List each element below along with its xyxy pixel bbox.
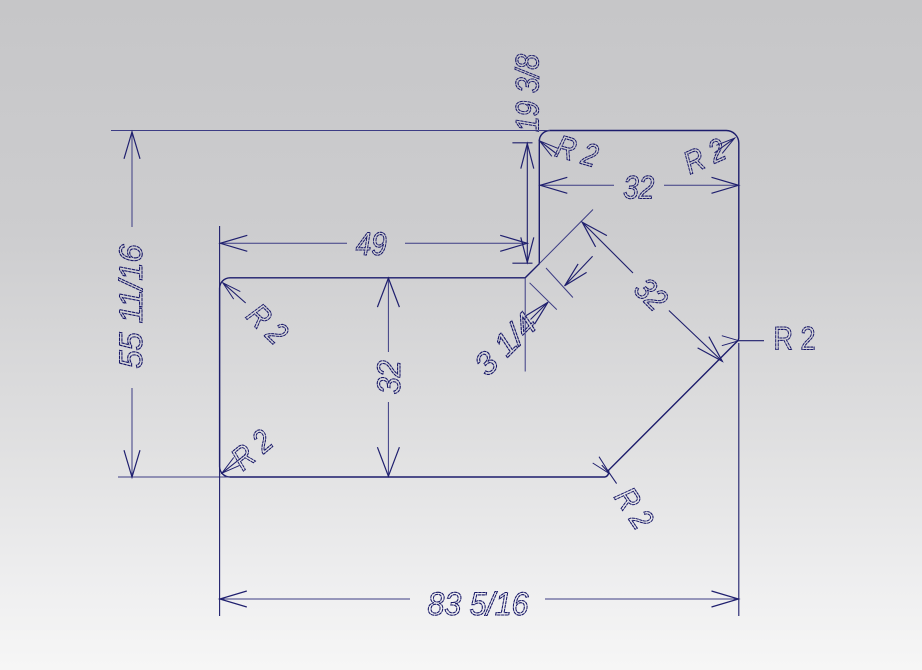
text 49 xyxy=(356,226,387,262)
text 32 vertical xyxy=(371,360,407,394)
text 32 top xyxy=(623,170,654,206)
text 3 1/4 xyxy=(467,305,544,382)
arrow 49 right xyxy=(500,235,527,251)
leader R2 top-left xyxy=(540,141,558,155)
text 55 11/16 xyxy=(113,244,149,368)
text R2 bottom-right xyxy=(608,481,661,536)
text 19 3/8 xyxy=(510,54,546,132)
text 83 5/16 xyxy=(428,586,529,622)
leader R2 bottom-left xyxy=(222,455,246,474)
text R2 top-left xyxy=(552,128,602,174)
arrow 19 3/8 down xyxy=(521,237,534,262)
arrow 32 vert top xyxy=(377,278,399,307)
dimension 3 1/4 line tails xyxy=(531,302,549,320)
arrow 32 top left xyxy=(540,177,567,193)
extension line right vertical xyxy=(738,343,740,616)
dimension 55 11/16 line xyxy=(131,132,133,228)
text R2 top-right xyxy=(678,131,731,181)
tick 19 3/8 bottom xyxy=(512,262,532,264)
text R2 bottom-left xyxy=(224,422,279,477)
leader R2 right xyxy=(739,340,764,342)
dimension 32 diagonal line xyxy=(582,222,633,273)
dimension 32 vertical line xyxy=(387,278,389,352)
text R2 right xyxy=(774,321,816,357)
svg-text:32: 32 xyxy=(623,170,654,206)
leader R2 mid-left xyxy=(223,283,246,303)
arrow 32 vert bottom xyxy=(377,447,399,476)
dimension 32 top line xyxy=(540,184,614,186)
arrow 32 diag lower xyxy=(698,337,723,362)
extension line left vertical xyxy=(219,226,221,616)
arrow 32 diag upper xyxy=(582,222,607,247)
arrow 83 right xyxy=(712,591,739,607)
extension line bottom left (55 11/16) xyxy=(118,476,230,478)
leader R2 bottom-right xyxy=(602,465,617,484)
arrow 3 1/4 lower xyxy=(526,302,548,324)
svg-text:55 11/16: 55 11/16 xyxy=(113,244,149,368)
svg-text:32: 32 xyxy=(371,360,407,394)
svg-text:83 5/16: 83 5/16 xyxy=(428,586,529,622)
dimension 19 3/8 line xyxy=(526,143,528,263)
text 32 diagonal xyxy=(627,270,675,318)
arrow 32 top right xyxy=(712,177,739,193)
extension line chamfer prolongation xyxy=(539,210,593,264)
arrow 55 top xyxy=(124,132,140,159)
dimension 83 5/16 line xyxy=(220,598,411,600)
arrow 55 bottom xyxy=(124,450,140,477)
dimension 49 line xyxy=(220,242,347,244)
text R2 mid-left xyxy=(240,296,295,351)
extension line top left (55 11/16) xyxy=(111,130,550,132)
svg-text:19 3/8: 19 3/8 xyxy=(510,54,546,132)
leader R2 top-right xyxy=(715,138,735,153)
arrow 19 3/8 up xyxy=(521,144,534,169)
part outline xyxy=(220,130,739,477)
arrow 3 1/4 upper xyxy=(565,264,587,286)
extension line 3 1/4 upper xyxy=(546,268,573,298)
tick 19 3/8 top xyxy=(512,142,532,144)
arrow 49 left xyxy=(220,235,247,251)
extension line 3 1/4 lower xyxy=(530,283,557,310)
arrow 83 left xyxy=(220,591,247,607)
extension line below inner corner xyxy=(524,278,526,372)
svg-text:49: 49 xyxy=(356,226,387,262)
svg-text:R 2: R 2 xyxy=(774,321,816,357)
